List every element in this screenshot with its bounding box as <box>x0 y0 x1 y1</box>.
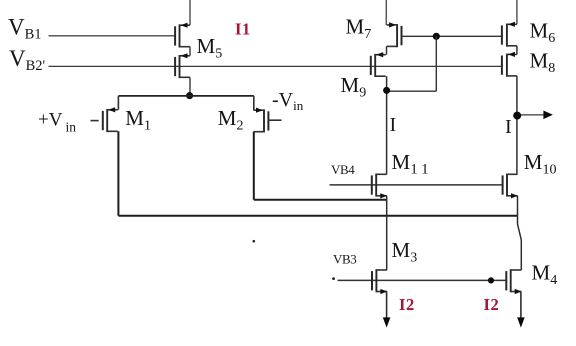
transistor M5 upper (gate VB1) <box>175 23 190 48</box>
dot before VB3 wire <box>332 277 335 280</box>
transistor M6 <box>502 22 517 47</box>
wire mirror gate to M9 drain <box>387 90 437 92</box>
wire M2 gate stub <box>268 119 281 121</box>
node mirror gate junction <box>433 33 440 40</box>
stray dot below M2 drain <box>253 240 256 243</box>
wire M9 drain to M11 drain <box>386 76 388 174</box>
wire M5 drain to tail node <box>189 77 191 96</box>
wire mirror gate down <box>435 36 437 91</box>
wire M8 drain to M10 drain (output column) <box>516 76 518 174</box>
transistor M11 (NMOS) <box>372 174 387 199</box>
svg-text:I: I <box>390 114 397 136</box>
wire VB2' bus to gates of M5 lower, M9, M8 <box>49 65 503 67</box>
transistor M1 <box>103 107 118 132</box>
wire M7 gate to M6 gate <box>402 35 502 37</box>
VDD stub above M6 <box>516 0 518 24</box>
VDD stub above M7 <box>385 0 387 25</box>
wire M6 drain to M8 source <box>516 46 518 55</box>
wire M2 drain down <box>253 132 255 200</box>
node output junction <box>513 112 521 120</box>
wire M2 source drop <box>253 96 255 110</box>
svg-text:VB3: VB3 <box>333 251 356 266</box>
wire VB4 to gates of M11 and M10 <box>330 184 502 186</box>
wire M11 source to M3 drain <box>386 196 388 270</box>
output arrow <box>521 111 553 120</box>
wire M1 source drop <box>117 96 119 110</box>
current sink I2 left (arrow) <box>383 292 391 328</box>
wire M5a drain to M5b source <box>189 47 191 56</box>
node tail junction <box>186 92 193 99</box>
transistor M2 (mirrored) <box>254 108 269 133</box>
node M9 drain junction <box>383 87 390 94</box>
wire M1 drain down <box>117 131 119 216</box>
wire VB1 to M5 upper gate <box>49 35 176 37</box>
svg-text:I2: I2 <box>484 295 500 314</box>
transistor M4 (NMOS) <box>506 269 521 294</box>
VDD stub above M5 <box>189 0 191 25</box>
svg-text:I2: I2 <box>399 295 415 314</box>
svg-text:VB4: VB4 <box>331 162 355 177</box>
wire M7 drain to M9 source <box>386 46 388 54</box>
wire VB3 to gates of M3 and M4 <box>338 279 506 281</box>
transistor M8 <box>502 52 517 77</box>
svg-text:I: I <box>505 116 512 138</box>
wire M2 drain to M11 source <box>254 199 387 201</box>
wire M1 drain to M10 source (long rail) <box>118 215 517 217</box>
svg-text:I1: I1 <box>235 20 251 39</box>
wire M1 gate stub <box>91 120 99 122</box>
wire M10 source to M4 drain (with jog) <box>518 196 522 270</box>
wire tail rail M1.source to M2.source <box>118 95 253 97</box>
transistor M5 lower (gate VB2') <box>175 53 190 78</box>
transistor M10 (NMOS) <box>503 174 518 199</box>
transistor M7 (mirrored) <box>387 22 402 47</box>
transistor M3 (NMOS) <box>372 269 387 294</box>
node M4 gate junction <box>488 277 494 283</box>
transistor M9 <box>371 52 386 77</box>
current sink I2 right (arrow) <box>517 292 525 328</box>
